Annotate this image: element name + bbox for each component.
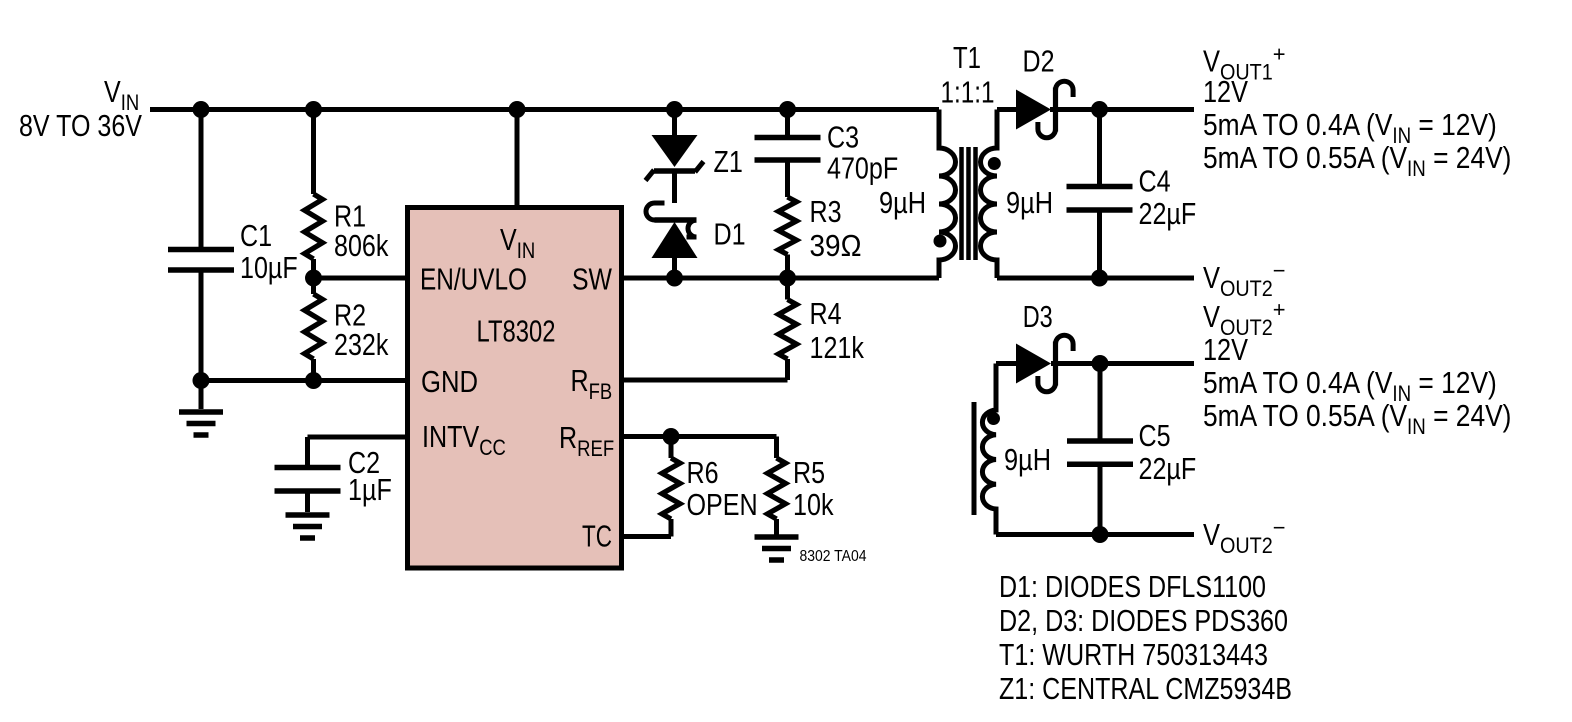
svg-text:D2, D3: DIODES PDS360: D2, D3: DIODES PDS360	[999, 603, 1288, 638]
wire: VOUT1+	[1050, 107, 1194, 112]
node: VIN at Z1	[666, 101, 683, 118]
label 5mA TO 0.55A	[1203, 398, 1511, 439]
svg-text:= 12V): = 12V)	[1411, 107, 1497, 142]
ground	[755, 537, 799, 560]
svg-text:12V: 12V	[1203, 74, 1248, 109]
diode D1 (schottky)	[646, 171, 746, 278]
node: GND at R2	[305, 372, 322, 389]
svg-text:REF: REF	[577, 436, 614, 461]
label VOUT2-	[1203, 515, 1286, 558]
ground	[286, 515, 330, 538]
svg-text:9µH: 9µH	[879, 185, 926, 220]
T1 third core	[972, 402, 977, 515]
inductor T1 primary 9µH	[879, 110, 956, 279]
label VOUT2-	[1203, 258, 1286, 301]
resistor R2	[305, 278, 389, 381]
svg-text:1:1:1: 1:1:1	[941, 75, 995, 110]
svg-text:IN: IN	[517, 238, 536, 263]
svg-text:+: +	[1273, 297, 1286, 322]
svg-text:V: V	[500, 222, 517, 257]
inductor T1 secondary 9µH	[981, 110, 1054, 279]
svg-text:OPEN: OPEN	[687, 487, 758, 522]
svg-text:IN: IN	[1407, 156, 1426, 181]
svg-text:SW: SW	[572, 262, 613, 297]
svg-text:806k: 806k	[334, 228, 389, 263]
wire: RREF	[622, 434, 777, 439]
wire: TC	[622, 534, 672, 539]
svg-text:9µH: 9µH	[1004, 442, 1051, 477]
svg-text:D1: D1	[714, 217, 746, 252]
svg-text:+: +	[1273, 42, 1286, 67]
svg-text:121k: 121k	[810, 330, 865, 365]
svg-text:= 24V): = 24V)	[1426, 398, 1512, 433]
svg-text:5mA TO 0.4A (V: 5mA TO 0.4A (V	[1203, 107, 1393, 142]
svg-text:8302 TA04: 8302 TA04	[800, 548, 867, 565]
resistor R3	[779, 194, 862, 278]
svg-text:D1: DIODES DFLS1100: D1: DIODES DFLS1100	[999, 569, 1266, 604]
svg-text:39Ω: 39Ω	[810, 228, 862, 263]
svg-text:5mA TO 0.55A (V: 5mA TO 0.55A (V	[1203, 398, 1407, 433]
svg-text:= 24V): = 24V)	[1426, 140, 1512, 175]
svg-text:−: −	[1273, 515, 1286, 540]
svg-text:5mA TO 0.55A (V: 5mA TO 0.55A (V	[1203, 140, 1407, 175]
label VOUT2+	[1203, 297, 1286, 340]
label VOUT1+	[1203, 42, 1286, 85]
node: return at C5	[1092, 526, 1109, 543]
svg-text:C3: C3	[827, 120, 859, 155]
node: VIN at R1	[305, 101, 322, 118]
wire: VIN pin	[515, 110, 520, 208]
svg-text:22µF: 22µF	[1139, 196, 1197, 231]
capacitor C3	[755, 110, 899, 198]
node: VOUT1+ at C4	[1091, 101, 1108, 118]
wire: VOUT2+	[1051, 361, 1194, 366]
svg-text:Z1: Z1	[714, 144, 743, 179]
svg-text:OUT2: OUT2	[1220, 533, 1273, 558]
svg-text:INTV: INTV	[422, 419, 479, 454]
node: RREF junction	[663, 428, 680, 445]
node: VIN at C3	[779, 101, 796, 118]
svg-text:22µF: 22µF	[1139, 451, 1197, 486]
label 5mA TO 0.4A	[1203, 365, 1497, 406]
op-amp U1 LT8302	[408, 208, 622, 569]
wire: VOUT1 return	[997, 276, 1194, 281]
svg-text:C1: C1	[240, 218, 272, 253]
svg-text:Z1: CENTRAL CMZ5934B: Z1: CENTRAL CMZ5934B	[999, 671, 1292, 706]
node: secondary dot	[988, 157, 1001, 170]
svg-text:D3: D3	[1023, 299, 1053, 334]
wire: RFB	[622, 378, 788, 383]
node: VIN at pin	[509, 101, 526, 118]
svg-text:8V TO 36V: 8V TO 36V	[19, 108, 142, 143]
node: EN divider	[305, 270, 322, 287]
ground	[179, 381, 223, 436]
svg-text:R4: R4	[810, 296, 842, 331]
wire: GND rail	[201, 378, 408, 383]
label VIN	[19, 74, 142, 143]
svg-text:C4: C4	[1139, 164, 1171, 199]
svg-text:5mA TO 0.4A (V: 5mA TO 0.4A (V	[1203, 365, 1393, 400]
node: SW at R3	[779, 270, 796, 287]
svg-text:10k: 10k	[793, 487, 834, 522]
wire: VOUT2 return	[996, 532, 1194, 537]
svg-text:R: R	[571, 363, 589, 398]
svg-text:10µF: 10µF	[240, 250, 298, 285]
svg-text:CC: CC	[479, 435, 506, 460]
svg-text:12V: 12V	[1203, 332, 1248, 367]
note Z1	[999, 671, 1292, 706]
svg-text:= 12V): = 12V)	[1411, 365, 1497, 400]
zener Z1	[646, 110, 743, 181]
note D1	[999, 569, 1266, 604]
svg-text:V: V	[1203, 517, 1220, 552]
svg-text:EN/UVLO: EN/UVLO	[420, 262, 527, 297]
wire: VIN top rail	[150, 107, 939, 112]
node: SW at D1	[666, 270, 683, 287]
node: primary dot	[934, 235, 947, 248]
svg-text:T1: WURTH 750313443: T1: WURTH 750313443	[999, 637, 1268, 672]
label 8302 TA04	[800, 548, 867, 565]
svg-text:IN: IN	[1407, 414, 1426, 439]
svg-text:R: R	[559, 420, 577, 455]
capacitor C2	[275, 445, 392, 512]
svg-text:1µF: 1µF	[348, 472, 392, 507]
svg-text:OUT2: OUT2	[1220, 276, 1273, 301]
resistor R4	[779, 278, 865, 380]
svg-text:R3: R3	[810, 194, 842, 229]
capacitor C5	[1067, 364, 1196, 535]
diode D3 (schottky)	[1016, 299, 1073, 392]
node: VIN at C1	[193, 101, 210, 118]
resistor R6	[662, 437, 758, 537]
wire: SW	[622, 276, 940, 281]
label 12V	[1203, 332, 1248, 367]
node: third winding dot	[987, 412, 1000, 425]
wire: EN/UVLO	[314, 276, 408, 281]
inductor T1 third 9µH	[982, 364, 1051, 535]
svg-text:V: V	[104, 74, 121, 109]
svg-text:V: V	[1203, 299, 1220, 334]
wire: D3 anode	[996, 361, 1019, 366]
svg-text:9µH: 9µH	[1006, 185, 1053, 220]
label 5mA TO 0.4A	[1203, 107, 1497, 148]
node: GND at C1	[193, 372, 210, 389]
note D2 D3	[999, 603, 1288, 638]
svg-text:TC: TC	[582, 519, 612, 554]
svg-text:FB: FB	[589, 379, 613, 404]
svg-text:232k: 232k	[334, 327, 389, 362]
capacitor C4	[1067, 110, 1197, 279]
resistor R1	[305, 110, 389, 279]
capacitor C1	[168, 110, 298, 381]
label T1	[941, 40, 995, 110]
svg-text:−: −	[1273, 258, 1286, 283]
svg-text:LT8302: LT8302	[477, 314, 556, 349]
svg-text:T1: T1	[953, 40, 981, 75]
resistor R5	[768, 437, 834, 535]
svg-text:470pF: 470pF	[827, 151, 898, 186]
label 12V	[1203, 74, 1248, 109]
T1 core	[962, 147, 976, 260]
wire: D2 anode	[997, 107, 1018, 112]
svg-text:R5: R5	[793, 455, 825, 490]
svg-text:GND: GND	[421, 364, 478, 399]
svg-text:C5: C5	[1139, 418, 1171, 453]
node: VOUT2+ at C5	[1092, 355, 1109, 372]
label 5mA TO 0.55A	[1203, 140, 1511, 181]
wire: INTVCC	[308, 437, 408, 465]
note T1	[999, 637, 1268, 672]
svg-text:V: V	[1203, 260, 1220, 295]
diode D2 (schottky)	[1016, 44, 1073, 138]
svg-text:D2: D2	[1023, 44, 1055, 79]
node: return at C4	[1091, 270, 1108, 287]
svg-text:R6: R6	[687, 455, 719, 490]
